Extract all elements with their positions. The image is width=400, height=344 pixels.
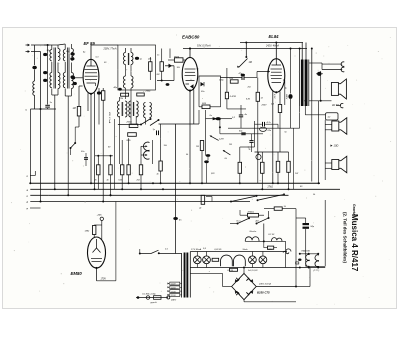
plug contact 3 <box>340 103 343 107</box>
IF T2 winding right <box>125 101 127 117</box>
wire <box>135 116 137 125</box>
bandfilter T2 primary bottom <box>63 73 65 88</box>
tube V2 pin bottom <box>189 91 191 184</box>
resistor small <box>212 258 219 261</box>
svg-text:22n: 22n <box>267 130 272 132</box>
tone pot 1 <box>238 162 242 173</box>
wire <box>180 283 182 285</box>
svg-text:25p: 25p <box>65 51 70 53</box>
output transformer core bar 1 <box>301 60 304 107</box>
screen resistor <box>102 91 105 101</box>
wire <box>118 124 141 126</box>
svg-text:1MΩ: 1MΩ <box>85 231 90 233</box>
wire <box>299 49 301 60</box>
heater rail bottom <box>190 267 325 269</box>
svg-text:1M: 1M <box>196 146 199 148</box>
speaker SP2 <box>332 121 339 131</box>
wire <box>336 105 341 107</box>
resistor row 1 <box>97 165 100 175</box>
junction <box>245 56 247 58</box>
capacitor 60p <box>241 132 245 134</box>
junction <box>219 126 221 128</box>
svg-text:B250 C75: B250 C75 <box>257 291 270 295</box>
IF T2 winding left <box>118 101 120 117</box>
tap arrow 150V <box>168 290 170 292</box>
bandfilter T1 secondary bottom <box>58 73 60 89</box>
wire <box>159 123 200 125</box>
bandfilter T2 secondary bottom <box>71 73 73 89</box>
wire <box>324 120 326 180</box>
tube V1 anode <box>87 65 96 67</box>
wire <box>240 105 242 115</box>
svg-text:0,1: 0,1 <box>165 249 168 251</box>
resistor row 3 <box>121 165 124 175</box>
resistor row 6 <box>159 161 162 171</box>
wire <box>304 101 306 115</box>
tube V3 cathode <box>272 82 282 84</box>
bus line 2 <box>30 188 340 190</box>
output transformer core bar 2 <box>305 60 308 107</box>
grid capacitor <box>71 76 75 79</box>
connector box <box>326 113 339 120</box>
wire <box>223 286 232 288</box>
wire <box>67 96 69 195</box>
svg-text:(2. Teil des Schaltbildes): (2. Teil des Schaltbildes) <box>343 212 348 263</box>
wire <box>173 66 175 81</box>
svg-text:1,2M: 1,2M <box>219 138 224 140</box>
IF T4 winding <box>144 103 146 118</box>
switch arm small <box>71 143 76 148</box>
junction <box>189 48 191 50</box>
IF T1 winding right <box>131 53 133 65</box>
resistor 70k <box>121 93 129 96</box>
tube V2 diode plates <box>186 83 190 85</box>
svg-text:10Ω: 10Ω <box>334 144 339 148</box>
bandfilter T2 secondary top <box>71 49 73 61</box>
detector loop <box>199 76 221 102</box>
wire <box>58 44 65 45</box>
junction heater <box>299 267 301 269</box>
speaker SP3 <box>332 160 339 170</box>
choke B <box>272 238 282 242</box>
trimmer capacitor <box>43 71 47 74</box>
svg-text:246V: 246V <box>267 248 273 251</box>
tube V1 pin bottom 3 <box>94 93 96 189</box>
wire <box>220 77 242 79</box>
IF T1 lower right <box>131 76 133 88</box>
capacitor 0.1u <box>249 140 253 142</box>
capacitor 4n <box>239 114 243 116</box>
diode mark 4 <box>246 291 251 295</box>
svg-text:242V: 242V <box>285 93 288 100</box>
tube V3 EL84 envelope <box>268 59 285 93</box>
resistor 1M eye <box>93 226 96 235</box>
top rail <box>183 48 307 50</box>
svg-text:60V, 2.1mA: 60V, 2.1mA <box>108 112 111 124</box>
tube V4 dashes <box>91 258 102 260</box>
svg-text:110V: 110V <box>171 284 176 286</box>
bus line 4 <box>30 201 250 203</box>
tone pot 3 <box>276 161 280 172</box>
tone pot 4 <box>287 161 291 172</box>
wire <box>44 44 58 46</box>
tube V1 EF89 envelope <box>83 59 99 93</box>
mains switch <box>140 253 151 255</box>
switch arm 2 <box>150 120 159 126</box>
plug contact 2 <box>341 67 344 72</box>
wire <box>198 101 200 107</box>
top rail 2 <box>240 42 303 44</box>
svg-text:2M: 2M <box>156 74 160 76</box>
junction bus <box>90 182 92 184</box>
tube V1 cathode <box>87 82 96 84</box>
resistor R2 <box>149 62 152 72</box>
DIN connector contact 2 <box>144 151 150 159</box>
capacitor 5n <box>317 72 322 76</box>
tube V1 pin bottom 1 <box>87 93 89 111</box>
wire <box>285 241 287 267</box>
capacitor <box>241 74 245 77</box>
diode D1 <box>165 65 174 67</box>
bus line 3 <box>30 194 288 196</box>
tube V3 pin top <box>275 43 277 59</box>
tube V4 target <box>96 239 98 248</box>
svg-text:240V: 240V <box>170 299 177 302</box>
IF can boundary <box>118 45 156 90</box>
lamp 3 <box>249 256 257 264</box>
svg-text:53V, 0.57mA: 53V, 0.57mA <box>197 45 211 48</box>
resistor 20k <box>129 124 138 127</box>
capacitor 50n dark <box>206 154 211 157</box>
capacitor C1 <box>32 66 37 70</box>
wire <box>97 175 99 190</box>
wire <box>243 300 245 302</box>
wire <box>263 241 265 247</box>
capacitor 4.7n <box>262 122 264 127</box>
svg-text:gepolt: gepolt <box>151 301 157 304</box>
tube V4 EM80 envelope <box>88 237 106 268</box>
resistor P825 box <box>174 58 183 62</box>
wire <box>101 225 103 240</box>
switch arm long 1 <box>231 196 256 201</box>
wire <box>226 68 228 92</box>
wire <box>245 43 247 58</box>
tone pot 2 <box>261 162 265 173</box>
wire <box>30 109 32 183</box>
wire <box>305 43 307 60</box>
tube V3 anode <box>272 64 282 66</box>
svg-text:EC 92: EC 92 <box>269 234 276 236</box>
tube V2 pin bottom 2 <box>193 90 195 125</box>
svg-text:20kΩ: 20kΩ <box>126 121 133 123</box>
wire <box>305 218 307 223</box>
wire <box>256 72 258 78</box>
capacitor C2 <box>45 104 50 106</box>
svg-text:+245: +245 <box>97 214 103 217</box>
DIN arrows <box>146 145 148 147</box>
svg-text:235V, 61mA: 235V, 61mA <box>258 283 271 286</box>
wire <box>205 152 207 156</box>
output transformer left line <box>299 60 301 107</box>
potentiometer wiper <box>239 59 248 68</box>
switch arm 3 <box>238 219 249 224</box>
IF T3 winding left <box>129 101 131 117</box>
junction row <box>97 155 99 157</box>
resistor row 2 <box>109 165 112 175</box>
wire <box>34 45 36 65</box>
wire <box>199 106 202 108</box>
IF T1 winding left <box>124 53 126 65</box>
diode mark 2 <box>246 278 251 282</box>
wire <box>309 268 311 287</box>
rectifier diamond <box>232 273 257 299</box>
lamp 4 <box>259 256 267 264</box>
trimmer capacitor <box>73 82 77 85</box>
wire <box>201 139 203 142</box>
diode mark 1 <box>236 278 240 282</box>
value 40p <box>118 88 122 91</box>
trimmer capacitor <box>71 75 75 78</box>
heater filament V3 <box>315 255 319 261</box>
tube V1 pin bottom 2 <box>90 94 92 184</box>
bandfilter T1 primary top <box>50 50 52 61</box>
antenna terminal B <box>26 51 29 53</box>
tap arrow 220V <box>168 294 170 296</box>
tube V3 grid pin <box>268 71 270 73</box>
svg-text:1M: 1M <box>249 61 252 64</box>
wire <box>306 265 326 267</box>
wire <box>243 268 245 274</box>
heater filament V2 <box>306 254 310 260</box>
capacitor dark 2 <box>204 160 209 163</box>
resistor R3 <box>160 62 163 72</box>
capacitor <box>70 57 74 60</box>
tube V2 cathode <box>186 80 195 82</box>
capacitor 2n dark <box>215 117 221 120</box>
resistor 1k <box>274 207 282 210</box>
rail bump <box>286 249 291 252</box>
wire <box>251 134 253 141</box>
IF T3 core <box>132 102 134 116</box>
wire <box>318 101 320 183</box>
svg-text:P,7V, 85mA: P,7V, 85mA <box>191 248 202 251</box>
transformer primary line <box>181 254 183 298</box>
capacitor <box>84 157 88 159</box>
wire <box>78 116 80 127</box>
wire <box>125 88 127 99</box>
svg-text:EM80: EM80 <box>71 271 83 276</box>
svg-text:1M: 1M <box>73 108 76 110</box>
wire <box>40 109 42 202</box>
wire <box>230 223 238 225</box>
tube V2 EABC80 envelope <box>182 57 198 90</box>
svg-text:470kΩ: 470kΩ <box>248 210 255 213</box>
wire <box>254 121 256 147</box>
wire <box>40 52 42 110</box>
wire <box>51 62 53 73</box>
tube V3 screen pin <box>283 79 285 81</box>
transformer core bar 1 <box>184 253 186 298</box>
wire <box>299 106 301 128</box>
tube V4 pin bottom <box>96 268 98 281</box>
resistor box <box>128 133 137 137</box>
capacitor <box>166 83 170 86</box>
output transformer right line <box>308 60 310 107</box>
scan speckle <box>130 70 133 73</box>
wire <box>119 116 121 164</box>
wire <box>101 221 103 226</box>
svg-text:170V: 170V <box>101 279 107 281</box>
wire <box>325 124 332 126</box>
resistor 31n <box>137 93 145 96</box>
svg-text:0.47M: 0.47M <box>230 95 236 98</box>
diode mark 3 <box>236 291 240 295</box>
svg-text:6,3V: 6,3V <box>273 94 275 99</box>
svg-text:200V: 200V <box>261 105 268 107</box>
trimmer capacitor <box>43 79 47 82</box>
DIN connector contact 1 <box>144 142 150 150</box>
wire <box>121 140 123 165</box>
wire <box>292 128 294 189</box>
wire <box>54 95 56 189</box>
wire <box>190 272 222 274</box>
wire <box>93 235 95 238</box>
wire <box>139 249 141 254</box>
tube V2 pin top <box>189 49 191 58</box>
svg-text:200V, 77mA: 200V, 77mA <box>103 48 117 51</box>
resistor row 5 <box>139 165 142 175</box>
svg-text:(1.Tl.): (1.Tl.) <box>314 270 320 272</box>
cathode resistor <box>278 105 281 113</box>
tube V1 pin top <box>90 45 92 59</box>
wire <box>263 224 265 242</box>
pot wiper 2 <box>210 136 219 141</box>
wire <box>97 156 99 165</box>
resistor 62k <box>230 80 238 83</box>
wire <box>311 101 313 182</box>
wire <box>78 86 80 106</box>
IF T3 winding right <box>136 101 138 117</box>
wire <box>34 95 36 109</box>
mains cord <box>136 297 168 299</box>
electrolytic 8u <box>290 49 292 94</box>
speaker SP1 <box>331 83 338 96</box>
switch arm long 2 <box>258 195 284 201</box>
resistor R1 1M <box>77 106 80 116</box>
resistor R5 vert <box>256 92 259 101</box>
svg-text:P825: P825 <box>174 57 180 59</box>
wire <box>255 123 262 125</box>
lamp 2 <box>203 256 211 264</box>
IF T1 core dashes <box>127 53 129 65</box>
svg-text:Bass: Bass <box>237 220 241 222</box>
diode mark <box>201 82 205 86</box>
wire <box>145 118 147 125</box>
heater rail top <box>190 251 287 253</box>
tube V2 grid dashes <box>185 68 196 70</box>
svg-text:6,3V 85: 6,3V 85 <box>215 249 223 251</box>
svg-text:Musica 4 R/417: Musica 4 R/417 <box>350 214 359 272</box>
wire <box>322 63 342 65</box>
bandfilter T1 core <box>53 48 55 89</box>
wire <box>316 73 317 75</box>
bandfilter T2 primary top <box>63 50 65 61</box>
coil L1 <box>33 81 35 95</box>
wire <box>98 95 100 125</box>
tube V3 grid dashes <box>271 68 283 70</box>
wire <box>240 214 247 216</box>
wire <box>160 124 162 161</box>
heater rail mid <box>300 253 319 255</box>
feedback rail <box>228 127 300 129</box>
choke 1 <box>221 255 233 266</box>
trimmer capacitor 1p <box>135 57 139 60</box>
break symbol <box>283 251 289 254</box>
wire <box>169 49 171 59</box>
capacitor 22n oval <box>260 127 267 131</box>
wire <box>311 49 313 102</box>
capacitor 47n <box>241 75 243 80</box>
transformer core bar 2 <box>186 253 188 298</box>
wire <box>256 286 296 288</box>
wire <box>325 162 332 164</box>
choke wire <box>245 240 285 242</box>
svg-text:27kΩ: 27kΩ <box>267 186 274 188</box>
trimmer capacitor <box>71 52 75 55</box>
wire <box>219 119 221 134</box>
tap arrow 110V <box>168 283 170 285</box>
svg-text:242V, 48mA: 242V, 48mA <box>265 44 279 47</box>
tap arrow 125V <box>168 286 170 288</box>
wire <box>205 110 207 152</box>
junction <box>318 182 320 184</box>
svg-text:150V: 150V <box>171 291 176 293</box>
svg-text:EABC80: EABC80 <box>182 35 200 40</box>
antenna terminal A <box>26 44 29 46</box>
capacitor 4n bottom <box>173 217 178 220</box>
capacitor 1u <box>156 131 158 136</box>
transformer secondary line <box>189 252 191 298</box>
IF T1 lower left <box>124 76 126 88</box>
wire <box>264 208 274 210</box>
wire <box>240 146 255 148</box>
plug contact 1 <box>341 62 344 67</box>
tube V3 pin bottom 1 <box>272 91 274 183</box>
mains plug parts <box>146 296 150 300</box>
wire <box>175 124 177 254</box>
choke A <box>245 237 259 242</box>
wire <box>152 140 154 164</box>
wire <box>212 201 231 203</box>
svg-text:Gleichr.: Gleichr. <box>250 230 258 233</box>
resistor 1M small <box>200 141 203 151</box>
tube V3 pin bottom 2 <box>279 92 281 105</box>
resistor 470k <box>248 213 259 217</box>
svg-text:Cm 400 u.100p: Cm 400 u.100p <box>142 292 157 295</box>
wire <box>206 196 212 198</box>
switch arm <box>141 119 150 125</box>
capacitor blob heater <box>298 259 301 261</box>
svg-text:EL84: EL84 <box>269 34 280 39</box>
svg-text:125V: 125V <box>171 288 176 290</box>
junction <box>161 80 163 82</box>
trimmer capacitor <box>43 53 47 56</box>
wire <box>279 113 281 153</box>
terminal +245 <box>100 217 103 220</box>
svg-text:2x0,1 6,3V: 2x0,1 6,3V <box>247 270 258 272</box>
wire <box>305 229 307 266</box>
wire <box>206 118 213 120</box>
